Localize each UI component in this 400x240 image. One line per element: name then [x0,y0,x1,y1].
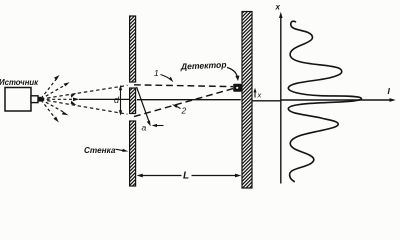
source box [5,88,41,112]
ray fan: steep up ray [41,75,60,99]
label a with left-pointing arrow [142,123,164,133]
ray fan: steep down ray [41,100,59,122]
label L [183,171,189,182]
svg-text:x: x [275,3,281,12]
ray fan: up ray [41,82,70,99]
wall 1 lower segment [130,121,136,186]
interference intensity curve [288,21,361,181]
label 1 with curved leader [154,68,173,82]
axis link segment from wall to graph axis [253,100,281,102]
source label "Источник" [0,78,39,87]
detector (black square with white dot) [233,84,242,92]
small x arrow right of wall 2 [254,88,262,100]
center ray: dashed part with arrowhead then solid to wall [41,98,130,102]
label Стенка with leader arrow [84,146,128,155]
ray fan: long ray to upper slit [41,85,128,99]
svg-text:x: x [257,90,262,99]
wall 1 middle segment between slits [130,88,136,114]
wall 1 (slit wall) upper segment [130,16,136,82]
dashed line 2: lower slit to detector [134,89,233,117]
ray fan: slight down long ray to lower slit [41,100,128,115]
label Детектор [180,60,227,72]
dimension L between walls [137,174,242,178]
ray fan: down ray [41,100,69,116]
svg-text:Детектор: Детектор [180,60,227,72]
wall 2 (detector wall) [242,12,252,189]
svg-text:a: a [142,123,147,133]
svg-text:1: 1 [154,68,159,78]
svg-text:Стенка: Стенка [84,146,116,155]
curved arrow from label to detector [227,68,240,82]
svg-text:Источник: Источник [0,78,39,87]
label d [114,95,120,105]
steep construction line from upper slit with arrowhead [137,87,151,126]
center line between walls [137,99,241,101]
graph horizontal axis I [281,86,396,102]
label 2 with curved leader [172,104,187,115]
graph vertical axis x [275,3,283,184]
svg-text:L: L [183,171,189,182]
dashed line 1: upper slit to detector [134,85,233,87]
dimension d between slits [119,85,122,116]
svg-text:2: 2 [181,106,187,116]
